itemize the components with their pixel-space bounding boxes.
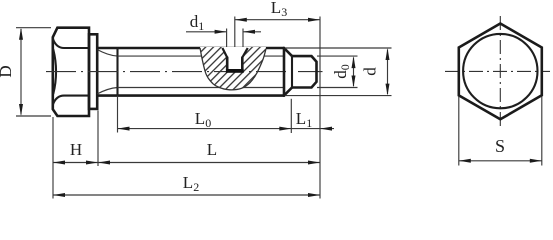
hex head lower facet line [53,96,89,105]
hex head end view horizontal centerline [445,70,550,72]
extension line washer right (H/L) [97,111,99,167]
hex head middle facet chamfer arc [53,50,56,94]
section break wavy boundary [200,48,266,90]
d extension bottom [285,95,392,97]
dimension line d [387,50,389,95]
hex head side view outline [53,28,89,116]
centerline bolt axis [46,71,323,73]
dimension line d1 [186,31,226,33]
thread minor diameter line top [118,55,285,57]
d0 extension top [317,55,358,57]
S extension left [458,97,460,166]
hole d1 right wall [241,58,244,70]
dimension line L [98,162,320,164]
dimension line H [53,162,98,164]
extension line head left (H/L2) [52,117,54,199]
thread minor diameter line bottom [118,87,285,89]
d1 extension left [226,29,228,48]
svg-text:d: d [361,67,380,76]
dimension line L2 [53,194,320,196]
hexagon outline [459,24,542,120]
shaft bottom edge [97,94,284,97]
hex head end view vertical centerline [499,16,501,127]
d1 extension right [242,29,244,48]
L3 extension hole centre [234,17,236,48]
dimension line L3 [235,19,320,21]
d extension top [285,47,392,49]
D bottom extension [16,115,51,117]
svg-text:H: H [70,140,82,159]
thread runout curve bottom [97,88,117,94]
extension line L0/L1 shared [290,99,292,133]
hex head upper facet line [53,39,89,48]
S extension right [541,97,543,166]
shaft top edge [97,47,284,50]
dimension line d0 [353,58,355,87]
cone slant bottom [284,88,292,96]
cone slant top [284,48,292,56]
svg-text:D: D [0,65,15,77]
extension line L0 left below shaft [117,96,119,133]
shaft shoulder at thread end [283,48,286,96]
broken-out section pocket fill [200,47,266,90]
hole bottom bar [226,69,244,73]
dimension line D [20,29,22,115]
tip junction line [291,56,293,87]
extension line tip end (L3/L1/L/L2) [319,17,321,199]
section hatching [197,45,269,93]
dimension line L0 and L1 [118,128,335,130]
chamfer circle [463,34,537,108]
thread end line [116,48,118,96]
countersink left slant [222,48,227,58]
tip outline with end chamfers [292,56,317,87]
svg-text:L: L [207,140,217,159]
hole d1 left wall [226,58,229,70]
countersink right slant [242,48,247,58]
d0 extension bottom [317,87,358,89]
svg-text:S: S [495,136,505,156]
washer face collar [89,34,97,109]
thread runout curve top [97,50,117,57]
hole countersink white interior [222,47,247,69]
D top extension [16,27,51,29]
dimension line S [459,160,542,162]
